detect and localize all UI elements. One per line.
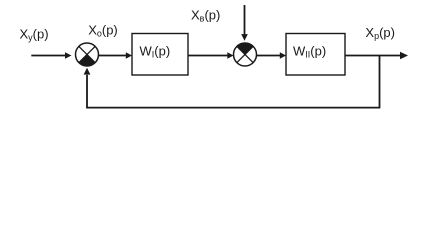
svg-text:Xо(p): Xо(p) — [88, 23, 118, 39]
svg-text:Xв(p): Xв(p) — [191, 7, 220, 23]
summing junction 2 — [234, 43, 257, 66]
svg-text:Xр(p): Xр(p) — [365, 25, 395, 41]
wire block W1 to junction 2 — [188, 55, 228, 57]
wire junction 2 to block W2 — [257, 55, 281, 57]
summing junction 1 — [76, 43, 99, 66]
svg-text:WI(p): WI(p) — [140, 43, 171, 59]
block W1 — [132, 34, 188, 76]
wire output arrow — [345, 55, 401, 57]
svg-text:WII(p): WII(p) — [293, 43, 326, 59]
wire input arrow — [31, 55, 65, 57]
wire disturbance arrow down — [244, 5, 246, 35]
wire junction1 to block W1 — [99, 55, 127, 57]
node feedback tap — [379, 56, 381, 108]
svg-text:Xу(p): Xу(p) — [20, 27, 49, 43]
wire feedback left up — [86, 75, 88, 109]
block W2 — [286, 34, 345, 76]
wire feedback bottom — [86, 107, 380, 109]
